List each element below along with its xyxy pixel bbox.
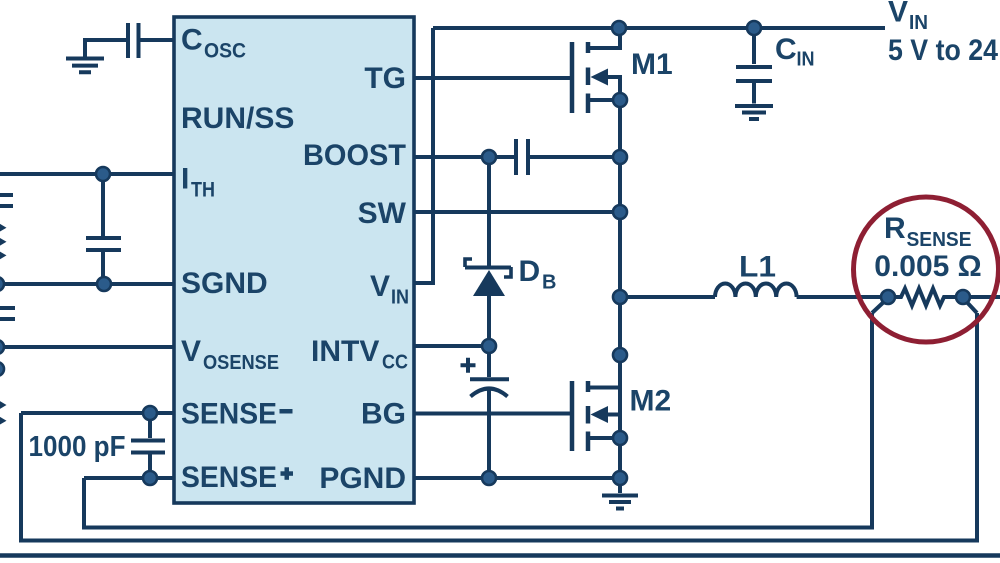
svg-text:C: C bbox=[775, 33, 797, 66]
node left edge half-dot lower bbox=[0, 362, 4, 376]
wire VIN pin up to top rail bbox=[414, 28, 433, 283]
node L1 bbox=[613, 290, 627, 304]
node PGND M2 bbox=[613, 471, 627, 485]
node PGND cap bbox=[482, 471, 496, 485]
node VOSENSE left edge half-dot bbox=[0, 340, 4, 354]
transistor M2 body arrow bbox=[591, 406, 609, 423]
diode DB zener bar bbox=[465, 266, 511, 270]
diode DB zener left wing bbox=[465, 259, 472, 267]
inductor L1 right lead bbox=[797, 295, 881, 299]
capacitor INTVCC top lead bbox=[487, 346, 491, 377]
svg-text:SENSE: SENSE bbox=[181, 398, 277, 431]
wire SENSE- pin bbox=[21, 411, 174, 415]
transistor M2 gate bar bbox=[570, 381, 575, 451]
wire BOOST pin bbox=[414, 155, 489, 159]
left-edge capacitor fragment lower plates bbox=[0, 308, 15, 319]
node BOOST bbox=[482, 150, 496, 164]
svg-text:B: B bbox=[542, 272, 556, 294]
capacitor CIN top lead bbox=[752, 28, 756, 64]
wire ITH dot to cap bbox=[101, 174, 105, 236]
node M2 drain bbox=[613, 348, 627, 362]
node M1 source bbox=[613, 93, 627, 107]
wire RSENSE to output edge bbox=[963, 295, 1000, 299]
wire SGND pin bbox=[0, 282, 174, 286]
svg-text:M2: M2 bbox=[630, 385, 672, 418]
svg-text:TG: TG bbox=[364, 62, 406, 95]
svg-text:I: I bbox=[181, 163, 189, 196]
inductor L1 humps bbox=[715, 283, 797, 297]
node M2 source bbox=[613, 431, 627, 445]
svg-text:IN: IN bbox=[797, 49, 815, 71]
svg-text:C: C bbox=[181, 24, 203, 57]
svg-text:SW: SW bbox=[358, 197, 407, 230]
capacitor on ITH bottom plate bbox=[86, 248, 121, 252]
capacitor INTVCC bottom lead bbox=[487, 389, 491, 478]
bottom border rule bbox=[0, 553, 1000, 558]
ground (top-left) bbox=[66, 59, 104, 73]
svg-text:V: V bbox=[181, 335, 201, 368]
wire SENSE+ down and bottom return to left kelvin bbox=[84, 313, 872, 528]
wire boost cap left lead bbox=[489, 155, 514, 159]
svg-text:IN: IN bbox=[909, 12, 928, 34]
wire PGND pin bbox=[414, 476, 620, 480]
wire diagonal right kelvin to RSENSE right dot bbox=[963, 298, 977, 313]
node ITH bbox=[96, 167, 110, 181]
transistor M2 source stub bbox=[588, 436, 620, 440]
svg-text:OSC: OSC bbox=[204, 40, 246, 63]
node top rail M1 drain bbox=[612, 21, 626, 35]
wire SENSE+ pin bbox=[84, 476, 174, 480]
node CIN bbox=[747, 21, 761, 35]
capacitor on ITH top plate bbox=[86, 236, 121, 240]
svg-text:1000 pF: 1000 pF bbox=[29, 431, 126, 463]
svg-text:TH: TH bbox=[191, 179, 215, 202]
inductor L1 left lead bbox=[620, 295, 715, 299]
IC U1 controller block bbox=[174, 17, 414, 503]
diode DB cathode lead bbox=[487, 157, 491, 266]
transistor M1 channel segments bbox=[586, 42, 591, 113]
node SW bbox=[613, 205, 627, 219]
ground (under CIN) bbox=[735, 106, 773, 119]
node RSENSE right bbox=[956, 290, 970, 304]
plus sign for polarized cap bbox=[461, 358, 476, 373]
capacitor INTVCC straight plate bbox=[470, 377, 509, 381]
capacitor COSC left plate bbox=[126, 23, 130, 58]
svg-text:M1: M1 bbox=[631, 48, 673, 81]
svg-text:SGND: SGND bbox=[181, 267, 268, 300]
svg-text:BOOST: BOOST bbox=[303, 139, 406, 172]
wire top rail bbox=[433, 26, 885, 30]
svg-text:PGND: PGND bbox=[319, 462, 406, 495]
capacitor 1000pF top plate bbox=[131, 439, 165, 443]
diode DB anode lead bbox=[487, 294, 491, 346]
wire boost cap right lead bbox=[530, 155, 620, 159]
svg-text:RUN/SS: RUN/SS bbox=[181, 102, 294, 135]
transistor M2 body stub bbox=[606, 415, 620, 439]
node SENSE- bbox=[143, 406, 157, 420]
wire COSC cap to ground stem bbox=[85, 40, 128, 57]
diode DB zener right wing bbox=[504, 267, 511, 277]
transistor M1 body stub bbox=[606, 77, 620, 100]
svg-text:INTV: INTV bbox=[311, 335, 379, 368]
svg-text:R: R bbox=[884, 212, 906, 245]
wire M1 source down to PGND node bbox=[618, 100, 622, 478]
transistor M1 body arrow bbox=[591, 69, 609, 86]
wire SENSE- down and bottom return to right kelvin bbox=[21, 313, 977, 541]
capacitor CIN top plate bbox=[736, 65, 772, 69]
transistor M2 channel segments bbox=[586, 381, 591, 451]
wire SW pin bbox=[414, 210, 620, 214]
capacitor CIN bottom plate bbox=[736, 79, 772, 83]
wire INTVCC pin bbox=[414, 344, 489, 348]
wire cap to SGND rail bbox=[101, 252, 105, 284]
ground (under M2) bbox=[602, 478, 638, 509]
svg-text:V: V bbox=[370, 270, 390, 303]
svg-text:5 V to 24: 5 V to 24 bbox=[888, 34, 998, 67]
svg-text:0.005 Ω: 0.005 Ω bbox=[874, 250, 981, 283]
svg-text:D: D bbox=[519, 255, 541, 288]
node RSENSE left bbox=[881, 290, 895, 304]
svg-text:IN: IN bbox=[391, 287, 409, 309]
transistor M1 drain stub bbox=[588, 28, 620, 48]
svg-text:SENSE: SENSE bbox=[907, 229, 972, 251]
wire TG pin to M1 gate bbox=[414, 76, 572, 80]
node boost cap right bbox=[613, 150, 627, 164]
svg-text:OSENSE: OSENSE bbox=[203, 352, 279, 374]
capacitor 1000pF bottom lead bbox=[148, 455, 152, 479]
wire diagonal left kelvin to RSENSE left dot bbox=[872, 298, 888, 313]
capacitor INTVCC curved plate bbox=[471, 389, 508, 397]
transistor M2 drain stub bbox=[588, 355, 620, 388]
capacitor CIN bottom lead bbox=[752, 83, 756, 104]
capacitor 1000pF top lead bbox=[148, 413, 152, 438]
wire BG pin to M2 gate bbox=[414, 412, 572, 416]
resistor RSENSE zigzag bbox=[888, 289, 963, 306]
capacitor COSC wire to pin bbox=[140, 38, 174, 42]
diode DB triangle bbox=[473, 270, 505, 296]
capacitor boost left plate bbox=[514, 139, 518, 175]
node SGND bbox=[97, 277, 111, 291]
capacitor boost right plate bbox=[526, 139, 530, 175]
svg-text:L1: L1 bbox=[739, 251, 776, 284]
node INTVCC bbox=[482, 339, 496, 353]
node SENSE+ bbox=[143, 471, 157, 485]
left-edge resistor fragment chevrons lower bbox=[0, 400, 7, 410]
transistor M1 source stub bbox=[588, 98, 620, 102]
svg-text:SENSE: SENSE bbox=[181, 461, 277, 494]
circle highlight around RSENSE bbox=[854, 197, 999, 342]
wire ITH pin bbox=[0, 172, 174, 176]
svg-text:V: V bbox=[888, 0, 908, 29]
svg-text:CC: CC bbox=[382, 352, 408, 374]
left-edge resistor fragment chevrons upper bbox=[0, 223, 7, 426]
node SGND left edge half-dot bbox=[0, 277, 4, 291]
capacitor COSC right plate bbox=[137, 23, 141, 58]
wire VOSENSE pin bbox=[0, 345, 174, 349]
capacitor 1000pF bottom plate bbox=[131, 451, 165, 455]
transistor M1 gate bar bbox=[570, 42, 575, 113]
left-edge capacitor fragment upper plates bbox=[0, 195, 13, 206]
svg-text:BG: BG bbox=[361, 398, 406, 431]
